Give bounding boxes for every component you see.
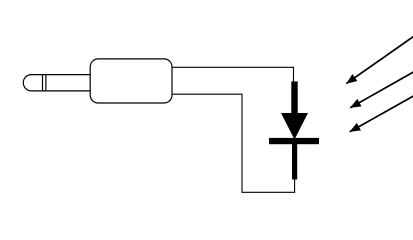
incident light arrow 2: [350, 72, 413, 108]
plug insulating ring 2: [45, 75, 47, 91]
plug insulating ring 1: [42, 75, 44, 91]
LED cathode bar: [269, 138, 319, 144]
incident light arrow 1: [346, 37, 413, 84]
audio plug tip and shaft: [23, 75, 90, 91]
LED anode lead (thick): [291, 81, 297, 113]
LED anode triangle: [281, 113, 308, 140]
incident light arrow 3: [350, 96, 413, 132]
plug body (sleeve): [90, 59, 172, 103]
wire: plug to LED cathode (bottom): [172, 94, 295, 192]
wire: plug to LED anode (top): [172, 67, 294, 82]
LED cathode lead (thick): [292, 144, 297, 180]
